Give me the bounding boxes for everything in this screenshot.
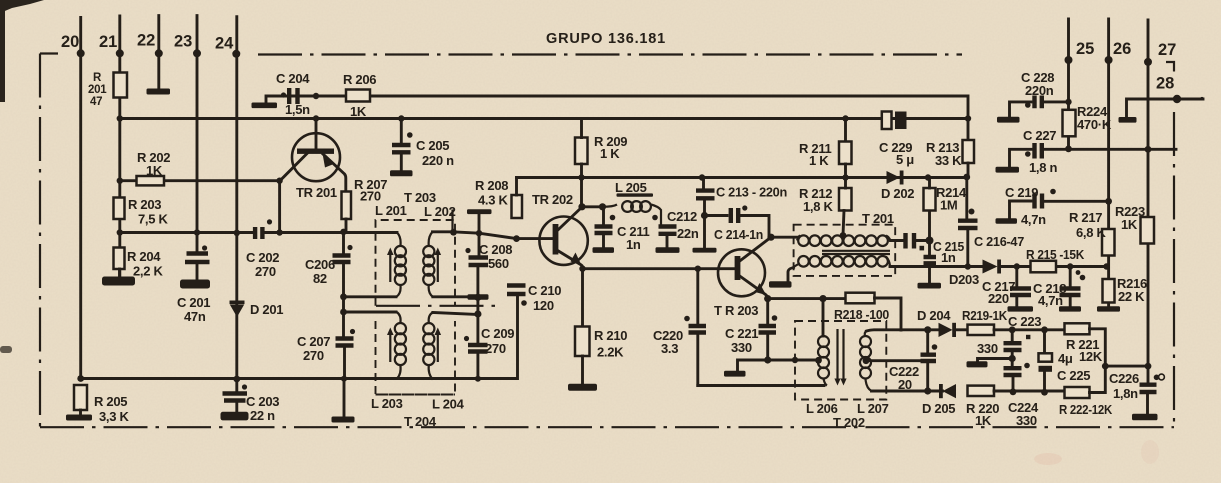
resistor R219 [956,328,968,331]
svg-text:C 210: C 210 [528,283,561,298]
core arrow L202 [437,252,439,282]
wire emitter TR203 row y298.6 [768,297,846,300]
diode D204 [939,323,953,337]
svg-text:C206: C206 [305,257,335,272]
wire C204/R206 y96 [266,96,968,141]
svg-text:1 K: 1 K [809,153,829,168]
svg-text:3,3 K: 3,3 K [99,409,129,424]
terminal bar 28 [1119,117,1137,123]
resistor R221 [1065,323,1090,334]
svg-text:T 204: T 204 [404,414,437,429]
svg-text:C 214-1n: C 214-1n [714,227,763,242]
resistor R207 [342,192,352,220]
wire R202 row y180.7 [120,179,280,182]
svg-text:270: 270 [485,341,506,356]
resistor R209 [575,138,588,165]
svg-text:20: 20 [898,377,912,392]
capacitor C216 feedthrough [965,178,968,220]
capacitor C211 [602,207,605,226]
resistor R216 [1103,279,1115,303]
svg-text:1,8 K: 1,8 K [803,199,833,214]
svg-text:C 201: C 201 [177,295,210,310]
capacitor C201 [185,254,210,263]
svg-text:D 202: D 202 [881,186,914,201]
svg-text:270: 270 [303,348,324,363]
capacitor C218 [1069,267,1072,289]
ground C205 [390,170,413,176]
svg-text:T 203: T 203 [404,190,436,205]
junction dots right middle [842,115,1109,269]
svg-text:1M: 1M [940,198,957,213]
capacitor C223 [1011,330,1014,343]
bus line 27 [1147,20,1150,385]
diode D203 [983,260,998,274]
resistor R202 [137,176,165,185]
svg-text:C 204: C 204 [276,71,310,86]
ground C215 [918,283,942,289]
resistor R223 [1141,217,1155,244]
resistor R206 [346,90,370,102]
svg-text:L 206: L 206 [806,401,838,416]
wire R221/R222 to line 27 [1105,365,1148,368]
svg-text:24: 24 [215,35,234,53]
svg-text:T 202: T 202 [833,415,865,430]
transformer box T202 [795,321,886,400]
node C215 [926,237,934,245]
chain border bottom [40,426,1174,428]
svg-text:120: 120 [533,298,554,313]
svg-text:C 221: C 221 [725,326,758,341]
svg-text:C 208: C 208 [479,242,512,257]
resistor R211 [844,119,847,142]
svg-text:C 213 - 220n: C 213 - 220n [716,185,787,200]
junction dots bottom right [764,295,1151,396]
inductor L202 [423,232,434,297]
svg-text:C 225: C 225 [1057,368,1090,383]
svg-text:27: 27 [1158,41,1176,59]
diode D205 [943,384,957,398]
svg-text:220: 220 [988,291,1009,306]
junction dots left [77,93,404,383]
svg-text:R 206: R 206 [343,72,376,87]
svg-text:C 207: C 207 [297,334,330,349]
resistor R201 [114,73,128,98]
svg-text:L 203: L 203 [371,396,403,411]
transistor TR202 [539,217,587,265]
svg-text:20: 20 [61,33,79,51]
wire C220 bottom to L206 bottom [698,384,824,387]
capacitor C227 [1010,149,1032,167]
svg-text:22 n: 22 n [250,408,275,423]
wire collector node to T201 [771,236,797,239]
svg-text:D 201: D 201 [250,302,283,317]
terminal dots bus lines [77,49,1152,66]
resistor R217 [1102,229,1115,256]
inductor T201 primary [797,235,891,246]
core arrow L203 [389,332,391,362]
svg-text:1K: 1K [350,104,367,119]
resistor R224 [1063,110,1076,137]
svg-text:R219-1K: R219-1K [962,308,1008,323]
svg-text:270: 270 [255,264,276,279]
inductor L206 [822,299,825,336]
svg-text:5 μ: 5 μ [896,152,914,167]
svg-text:23: 23 [174,33,192,51]
svg-text:R 204: R 204 [127,249,161,264]
ground C213 column [693,248,717,253]
svg-text:C 216-47: C 216-47 [974,234,1024,249]
svg-text:330: 330 [1016,413,1037,428]
transistor TR201 [292,133,340,181]
svg-text:R 203: R 203 [128,197,161,212]
ground C204 [252,103,278,109]
svg-text:C226: C226 [1109,371,1139,386]
svg-text:201: 201 [88,84,107,96]
wire D205 row y391 [872,390,943,393]
svg-text:22 K: 22 K [1118,289,1145,304]
svg-text:C 219: C 219 [1005,185,1038,200]
capacitor C228 [1010,102,1032,117]
capacitor C215 series [906,233,915,249]
svg-text:7,5 K: 7,5 K [138,212,168,227]
ground C211 [593,247,615,253]
column C208/C209 [476,297,479,345]
svg-text:28: 28 [1156,75,1174,93]
capacitor C202 [255,227,262,239]
svg-text:T 201: T 201 [862,211,894,226]
svg-text:2,2 K: 2,2 K [133,264,163,279]
diode D202 [887,171,901,184]
svg-text:L 207: L 207 [857,401,889,416]
chain border right [1173,112,1175,427]
svg-text:4,7n: 4,7n [1038,293,1063,308]
ground stub under C207 [343,380,346,418]
capacitor C208 [469,258,489,266]
svg-text:GRUPO 136.181: GRUPO 136.181 [546,31,666,47]
svg-text:C 205: C 205 [416,138,449,153]
svg-text:1K: 1K [975,413,992,428]
ground C218 [1059,306,1081,311]
svg-text:220n: 220n [1025,83,1054,98]
ground C223/C224 mid [978,359,1013,362]
resistor R213 [963,140,975,163]
capacitor C214 [705,214,728,217]
svg-text:R 217: R 217 [1069,210,1102,225]
resistor R214 [924,188,936,211]
core arrow L204 [437,332,439,362]
svg-text:220 n: 220 n [422,153,454,168]
wire C206 to C207 column [342,262,345,338]
resistor R210 [581,269,584,327]
wire secondary left to ground [788,268,794,282]
ground R204 [118,269,121,277]
resistor R205 [74,385,87,410]
svg-text:12K: 12K [1079,349,1103,364]
inductor L205 [603,201,662,224]
junction dots right ladder [1065,99,1151,205]
ground C208 [468,294,489,299]
capacitor C229 electrolytic [882,112,892,130]
wire L202 bottom row y296.8 [433,295,478,298]
svg-text:C 202: C 202 [246,250,279,265]
svg-text:1 K: 1 K [600,146,620,161]
capacitor C225 electrolytic [1043,330,1046,354]
junction dots wire B / main row [579,174,774,272]
capacitor C209 [468,345,488,352]
wire L203 top row y312 [344,311,397,314]
node TR201 base [276,178,282,184]
bus line 25 [1067,19,1070,149]
svg-text:47: 47 [90,96,102,108]
svg-text:3.3: 3.3 [661,341,678,356]
trimmer bar over C208 [467,209,492,214]
capacitor C213 [702,178,705,191]
resistor R215 [1031,261,1057,273]
core arrow L201 [389,252,391,282]
ground R210 [568,384,597,391]
ground C203 [221,412,249,421]
svg-text:R: R [93,72,102,84]
resistor R212 [839,188,852,211]
svg-text:R 222-12K: R 222-12K [1059,402,1113,417]
svg-text:D 205: D 205 [922,401,955,416]
ground C226 [1132,414,1158,421]
wire R207 to C206 [344,219,347,255]
svg-text:1K: 1K [1121,217,1138,232]
wire C221 bottom to ground and L206 tap [738,360,819,371]
bus line 20 [79,18,82,379]
wire L207 tap to C222 [866,359,921,362]
svg-text:33 K: 33 K [935,153,962,168]
svg-text:C 227: C 227 [1023,128,1056,143]
wire B y177.5 [517,176,967,179]
bus line 26 [1107,19,1110,307]
transistor TR203 [718,249,765,296]
svg-text:6,8 K: 6,8 K [1076,225,1106,240]
capacitor C219 [1010,201,1032,219]
capacitor C207 [336,339,354,346]
node R212 tap on primary [840,232,847,239]
resistor R222 [1065,387,1090,398]
svg-text:L 204: L 204 [432,397,465,412]
wire secondary right to D203 row y266.5 [890,265,983,268]
core T202 with arrows [838,329,844,381]
wire D204 row y329.8 [867,330,939,331]
svg-text:82: 82 [313,271,327,286]
resistor R220 [968,386,995,396]
svg-text:470·K: 470·K [1077,117,1112,132]
capacitor C221 [766,299,769,326]
transformer box T201 [794,225,896,276]
svg-text:4.3 K: 4.3 K [478,193,508,208]
capacitor C204 [289,88,297,104]
ground R205 [79,410,82,415]
svg-text:L 201: L 201 [375,203,407,218]
svg-text:TR 202: TR 202 [532,192,573,207]
svg-text:C 203: C 203 [246,394,279,409]
ground C217 [1008,306,1034,311]
resistor R204 [114,248,125,270]
svg-text:R 205: R 205 [94,394,127,409]
svg-text:1,8 n: 1,8 n [1029,160,1057,175]
resistor R218 [846,293,875,304]
wire L201 bottom row y296.8 [344,295,397,298]
wire TR202 collector column [580,178,583,208]
bracket at 28 [1166,62,1174,72]
svg-text:560: 560 [488,256,509,271]
svg-text:C 209: C 209 [481,326,514,341]
core T201 [822,251,890,254]
capacitor C217 [1015,267,1018,289]
bus line 21 [118,16,121,277]
svg-text:4μ: 4μ [1058,351,1073,366]
capacitor C215 shunt [928,241,931,257]
svg-text:1,5n: 1,5n [285,102,310,117]
wire D203 to line26 [1001,265,1107,268]
svg-text:R 215 -15K: R 215 -15K [1026,247,1085,262]
svg-text:22: 22 [137,32,155,50]
svg-text:D203: D203 [949,272,979,287]
scan edge marks [0,0,44,353]
wire terminal 28 entry [1127,99,1204,118]
svg-text:1K: 1K [146,163,163,178]
node collector TR202 [578,203,585,210]
svg-text:25: 25 [1076,40,1094,58]
resistor R203 [114,198,125,220]
svg-text:T R 203: T R 203 [714,303,758,318]
ground C219 [996,218,1018,224]
svg-text:330: 330 [977,341,998,356]
svg-text:L 202: L 202 [424,204,456,219]
capacitor C220 [696,269,699,326]
svg-text:26: 26 [1113,40,1131,58]
ground line 22 [147,89,171,95]
inductor L201 [395,233,406,297]
resistor R214 column to node [928,211,931,241]
inductor L204 [423,313,434,380]
inductor L203 [395,312,406,380]
bus line 23 [196,16,199,253]
svg-text:1n: 1n [626,237,641,252]
ground R216 line26 [1097,306,1120,311]
svg-text:R 210: R 210 [594,328,627,343]
resistor R208 [512,195,523,218]
svg-text:1,8n: 1,8n [1113,386,1138,401]
junction dots T203 row [450,229,520,382]
capacitor C212 [659,227,677,234]
svg-text:21: 21 [99,33,117,51]
ground C228 [997,117,1020,123]
wire C227 row y149 [1045,148,1176,151]
wire collector node to C211 [582,205,603,208]
stub above L202 node [451,210,453,232]
ground C212 [656,247,680,253]
capacitor C222 [926,330,929,355]
chain border left hook [40,52,58,54]
inductor T201 secondary [794,256,891,268]
core line T203/T204 [376,305,496,307]
svg-text:C212: C212 [667,209,697,224]
node on 28 wire [1173,95,1181,103]
wire bottom y378.5 [81,294,518,379]
diode D201 [230,301,245,305]
capacitor C203 [223,394,248,401]
svg-text:22n: 22n [677,226,699,241]
svg-text:4,7n: 4,7n [1021,212,1046,227]
chain border left [39,54,41,428]
capacitor C205 [400,119,403,144]
svg-text:L 205: L 205 [615,180,647,195]
bus line 24 [235,17,238,393]
wire L202 top to R208 base row [433,232,553,239]
transformer box T203 [376,220,456,306]
wire main horizontal y118.5 [120,117,968,120]
svg-text:R218 -100: R218 -100 [834,307,889,322]
capacitor C224 [1004,368,1022,375]
svg-text:R 208: R 208 [475,178,508,193]
wire main emitter row y268.7 [583,267,735,270]
svg-text:1n: 1n [941,250,956,265]
svg-text:D 204: D 204 [917,308,951,323]
svg-text:270: 270 [360,189,381,204]
svg-text:330: 330 [731,340,752,355]
capacitor C206 [333,256,351,263]
svg-text:TR 201: TR 201 [296,185,337,200]
capacitor C210 [507,286,526,295]
svg-text:2.2K: 2.2K [597,345,624,360]
ground C201 [180,280,210,289]
svg-text:47n: 47n [184,309,206,324]
wire y232.5 row [120,231,254,234]
transformer box T204 [376,321,456,395]
ground C227 [996,167,1020,173]
inductor L207 [860,331,872,391]
capacitor C226 [1140,385,1157,392]
chain border top [258,53,962,55]
wire base column TR201 [278,181,281,233]
wire L203 top right row y312 [433,313,478,315]
bus line 22 [157,16,160,89]
